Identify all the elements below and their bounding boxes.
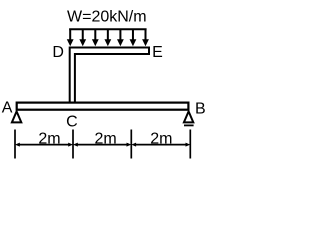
svg-text:E: E (152, 44, 163, 61)
svg-text:2m: 2m (94, 130, 116, 147)
svg-text:2m: 2m (38, 130, 60, 147)
svg-text:D: D (52, 44, 64, 61)
svg-text:W=20kN/m: W=20kN/m (67, 9, 147, 26)
svg-text:A: A (2, 100, 13, 117)
svg-text:2m: 2m (150, 130, 172, 147)
svg-text:C: C (66, 114, 78, 131)
svg-text:B: B (195, 100, 205, 117)
